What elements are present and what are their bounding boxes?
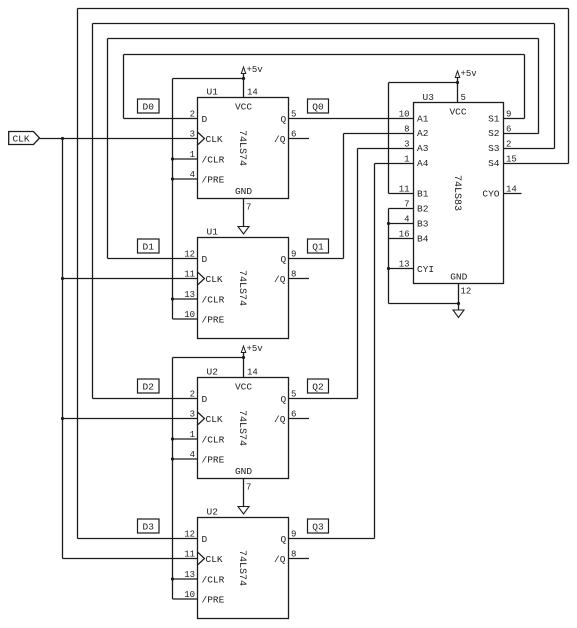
svg-text:A1: A1: [417, 114, 429, 125]
junction /CLR U1a: [171, 157, 174, 160]
svg-text:12: 12: [184, 530, 195, 540]
svg-text:/Q: /Q: [274, 134, 286, 145]
wire B1 vertical (+5V): [388, 83, 390, 194]
svg-text:VCC: VCC: [235, 382, 252, 393]
wire Q0 to A1: [289, 118, 414, 120]
svg-text:/PRE: /PRE: [202, 595, 225, 606]
wire CYO stub pin 14: [504, 193, 522, 195]
wire net D1/S2 to D pin: [108, 258, 198, 260]
junction B3: [387, 222, 390, 225]
svg-text:GND: GND: [235, 186, 252, 197]
svg-text:1: 1: [190, 150, 195, 160]
wire net D2/S3 to D pin: [93, 398, 198, 400]
svg-text:S3: S3: [488, 143, 500, 154]
svg-text:B3: B3: [417, 219, 429, 230]
wire CLK horizontal to U1a pin 3: [40, 138, 198, 140]
svg-text:B4: B4: [417, 234, 429, 245]
wire +5V rail U1: [173, 78, 244, 80]
ground U2 pin 7: [238, 479, 251, 515]
wire /CLR U1a: [173, 158, 198, 160]
svg-text:/PRE: /PRE: [202, 315, 225, 326]
wire A3 stub: [358, 148, 414, 150]
svg-text:D3: D3: [143, 522, 155, 533]
wire net D1/S2 left vertical: [107, 39, 109, 259]
wire /Q stub U2a: [289, 418, 310, 420]
svg-text:S1: S1: [488, 114, 500, 125]
wire Q3 riser: [374, 164, 376, 539]
svg-text:/CLR: /CLR: [202, 435, 225, 446]
svg-text:D1: D1: [143, 242, 155, 253]
svg-text:S2: S2: [488, 128, 500, 139]
junction /CLR U1b: [171, 297, 174, 300]
wire S3 stub from U3 pin: [504, 148, 555, 150]
svg-text:/Q: /Q: [274, 414, 286, 425]
svg-text:D: D: [202, 534, 208, 545]
power +5V symbol U1: [241, 65, 263, 79]
svg-text:8: 8: [404, 125, 409, 135]
svg-text:B2: B2: [417, 204, 429, 215]
svg-text:B1: B1: [417, 189, 429, 200]
svg-text:15: 15: [506, 155, 517, 165]
wire B4 stub pin 16: [389, 238, 414, 240]
svg-text:+5v: +5v: [247, 65, 264, 75]
svg-text:D: D: [202, 114, 208, 125]
svg-text:74LS74: 74LS74: [236, 410, 247, 446]
wire B1 stub pin 11: [389, 193, 414, 195]
svg-text:CYO: CYO: [482, 189, 499, 200]
wire Q1 riser: [343, 134, 345, 259]
svg-text:8: 8: [291, 550, 296, 560]
wire +5V tie vertical U2: [172, 358, 174, 600]
ground U3: [453, 310, 464, 318]
svg-text:CLK: CLK: [206, 274, 223, 285]
svg-text:5: 5: [461, 93, 466, 103]
svg-text:13: 13: [184, 570, 195, 580]
junction GND U3: [457, 302, 460, 305]
node label Q1: [308, 239, 329, 253]
svg-text:9: 9: [291, 250, 296, 260]
svg-text:10: 10: [399, 110, 410, 120]
wire CYI stub pin 13: [389, 268, 414, 270]
wire A2 stub: [344, 133, 414, 135]
node label Q0: [308, 99, 329, 113]
wire CLK branch to U2b pin 11: [63, 558, 198, 560]
flip-flop U2 74LS74 (stage 2): [190, 367, 297, 479]
svg-text:9: 9: [506, 110, 511, 120]
wire CLK branch to U1b pin 11: [63, 278, 198, 280]
svg-text:/CLR: /CLR: [202, 295, 225, 306]
wire /PRE U2a: [173, 458, 198, 460]
wire /PRE U2b: [173, 598, 198, 600]
wire CLK vertical bus: [62, 139, 64, 559]
wire CLK branch to U2a pin 3: [63, 418, 198, 420]
wire /CLR U2a: [173, 438, 198, 440]
node label D0: [138, 99, 160, 113]
junction /PRE U2a: [171, 457, 174, 460]
svg-text:VCC: VCC: [449, 107, 466, 118]
wire Q1 horizontal: [289, 258, 344, 260]
power +5V symbol U2: [241, 344, 263, 358]
wire net D0/S1 to D pin: [124, 118, 198, 120]
svg-text:U3: U3: [423, 92, 435, 103]
wire +5V tie vertical U1: [172, 79, 174, 320]
svg-text:U1: U1: [207, 227, 219, 238]
svg-text:CLK: CLK: [12, 134, 29, 145]
wire +5V rail U2: [173, 357, 244, 359]
svg-text:A3: A3: [417, 143, 429, 154]
svg-text:6: 6: [291, 130, 296, 140]
svg-text:9: 9: [291, 530, 296, 540]
svg-text:1: 1: [190, 430, 195, 440]
svg-text:2: 2: [190, 110, 195, 120]
svg-text:U1: U1: [207, 87, 219, 98]
svg-text:74LS83: 74LS83: [451, 175, 462, 211]
svg-text:CLK: CLK: [206, 554, 223, 565]
svg-text:10: 10: [184, 310, 195, 320]
svg-text:CYI: CYI: [417, 264, 434, 275]
wire B-input ground vertical: [388, 209, 390, 304]
svg-text:10: 10: [184, 590, 195, 600]
wire net D1/S2 top horizontal: [108, 38, 539, 40]
svg-text:/PRE: /PRE: [202, 455, 225, 466]
svg-text:14: 14: [247, 368, 258, 378]
flip-flop U2 74LS74 (stage 3): [184, 507, 296, 619]
flip-flop U1 74LS74 (stage 1): [184, 227, 296, 339]
svg-text:A4: A4: [417, 158, 429, 169]
junction CLK at U1b: [61, 277, 64, 280]
svg-text:U2: U2: [207, 367, 219, 378]
node label Q3: [308, 519, 329, 533]
svg-text:74LS74: 74LS74: [236, 130, 247, 166]
junction /PRE U1a: [171, 177, 174, 180]
svg-text:2: 2: [506, 140, 511, 150]
svg-text:7: 7: [246, 483, 251, 493]
svg-text:14: 14: [247, 88, 258, 98]
wire VCC drop U1 pin 14: [243, 79, 245, 98]
wire /PRE U1a: [173, 178, 198, 180]
svg-text:3: 3: [404, 140, 409, 150]
wire net D3/S4 to D pin: [78, 538, 198, 540]
svg-text:Q1: Q1: [312, 242, 324, 253]
wire net D3/S4 top horizontal: [78, 8, 569, 10]
wire B3 stub pin 4: [389, 223, 414, 225]
svg-text:6: 6: [291, 410, 296, 420]
wire /Q stub U1b: [289, 278, 310, 280]
junction /CLR U2b: [171, 577, 174, 580]
svg-text:5: 5: [291, 390, 296, 400]
junction /CLR U2a: [171, 437, 174, 440]
wire VCC drop U3 pin 5: [457, 83, 459, 103]
svg-text:D2: D2: [143, 382, 155, 393]
svg-text:Q: Q: [281, 534, 287, 545]
svg-text:Q: Q: [281, 114, 287, 125]
wire GND drop U3 pin 12: [458, 284, 460, 311]
svg-text:GND: GND: [235, 466, 252, 477]
power +5V symbol U3: [455, 69, 477, 83]
adder U3 74LS83: [399, 92, 517, 297]
svg-text:3: 3: [190, 130, 195, 140]
svg-text:5: 5: [291, 110, 296, 120]
svg-text:S4: S4: [488, 158, 500, 169]
svg-text:+5v: +5v: [461, 69, 478, 79]
svg-text:D0: D0: [143, 102, 155, 113]
wire A4 stub: [375, 163, 414, 165]
wire net D0/S1 top horizontal: [124, 54, 525, 56]
wire ground rail U3: [389, 303, 459, 305]
svg-text:12: 12: [184, 250, 195, 260]
svg-text:/Q: /Q: [274, 554, 286, 565]
wire VCC drop U2 pin 14: [243, 358, 245, 378]
wire S1 stub from U3 pin: [504, 118, 525, 120]
svg-text:11: 11: [184, 550, 195, 560]
node label Q2: [308, 379, 329, 393]
flip-flop U1 74LS74 (stage 0): [190, 87, 297, 199]
svg-text:+5v: +5v: [247, 344, 264, 354]
svg-text:D: D: [202, 394, 208, 405]
wire net D3/S4 right vertical: [568, 9, 570, 164]
wire /Q stub U1a: [289, 138, 310, 140]
wire Q3 horizontal: [289, 538, 375, 540]
wire B2 stub pin 7: [389, 208, 414, 210]
svg-text:D: D: [202, 254, 208, 265]
wire /PRE U1b: [173, 318, 198, 320]
svg-text:12: 12: [461, 287, 472, 297]
svg-text:VCC: VCC: [235, 102, 252, 113]
svg-text:7: 7: [246, 203, 251, 213]
svg-text:6: 6: [506, 125, 511, 135]
svg-text:GND: GND: [450, 272, 467, 283]
svg-text:Q: Q: [281, 394, 287, 405]
svg-text:Q3: Q3: [312, 522, 324, 533]
svg-text:U2: U2: [207, 507, 219, 518]
svg-text:Q0: Q0: [312, 102, 324, 113]
wire Q2 horizontal: [289, 398, 358, 400]
svg-text:74LS74: 74LS74: [236, 550, 247, 586]
svg-text:Q: Q: [281, 254, 287, 265]
junction +5V U1: [242, 77, 245, 80]
svg-text:CLK: CLK: [206, 414, 223, 425]
svg-text:4: 4: [190, 450, 195, 460]
wire net D0/S1 left vertical: [123, 55, 125, 119]
svg-text:11: 11: [184, 270, 195, 280]
wire net D1/S2 right vertical: [538, 39, 540, 134]
junction CYI: [387, 267, 390, 270]
wire /CLR U1b: [173, 298, 198, 300]
wire net D2/S3 right vertical: [554, 24, 556, 149]
wire S4 stub from U3 pin: [504, 163, 569, 165]
svg-text:3: 3: [190, 410, 195, 420]
svg-text:/CLR: /CLR: [202, 575, 225, 586]
junction CLK at U2a: [61, 417, 64, 420]
svg-text:CLK: CLK: [206, 134, 223, 145]
wire net D3/S4 left vertical: [77, 9, 79, 539]
svg-text:4: 4: [190, 170, 195, 180]
svg-text:74LS74: 74LS74: [236, 270, 247, 306]
ground U1 pin 7: [238, 199, 251, 235]
wire S2 stub from U3 pin: [504, 133, 539, 135]
svg-text:8: 8: [291, 270, 296, 280]
svg-text:/PRE: /PRE: [202, 175, 225, 186]
svg-text:1: 1: [404, 155, 409, 165]
svg-text:13: 13: [184, 290, 195, 300]
svg-text:2: 2: [190, 390, 195, 400]
wire net D2/S3 top horizontal: [93, 23, 555, 25]
wire /Q stub U2b: [289, 558, 310, 560]
input port CLK: [9, 132, 40, 145]
svg-text:Q2: Q2: [312, 382, 324, 393]
svg-text:/Q: /Q: [274, 274, 286, 285]
junction +5V U3: [456, 81, 459, 84]
svg-text:A2: A2: [417, 128, 429, 139]
wire Q2 riser: [357, 149, 359, 399]
wire net D2/S3 left vertical: [92, 24, 94, 399]
wire +5V rail U3: [389, 82, 458, 84]
junction +5V U2: [242, 356, 245, 359]
node label D2: [138, 379, 160, 393]
wire /CLR U2b: [173, 578, 198, 580]
svg-text:/CLR: /CLR: [202, 155, 225, 166]
wire net D0/S1 right vertical: [524, 55, 526, 119]
node label D1: [138, 239, 160, 253]
node label D3: [138, 519, 160, 533]
junction CLK at U1a: [61, 137, 64, 140]
